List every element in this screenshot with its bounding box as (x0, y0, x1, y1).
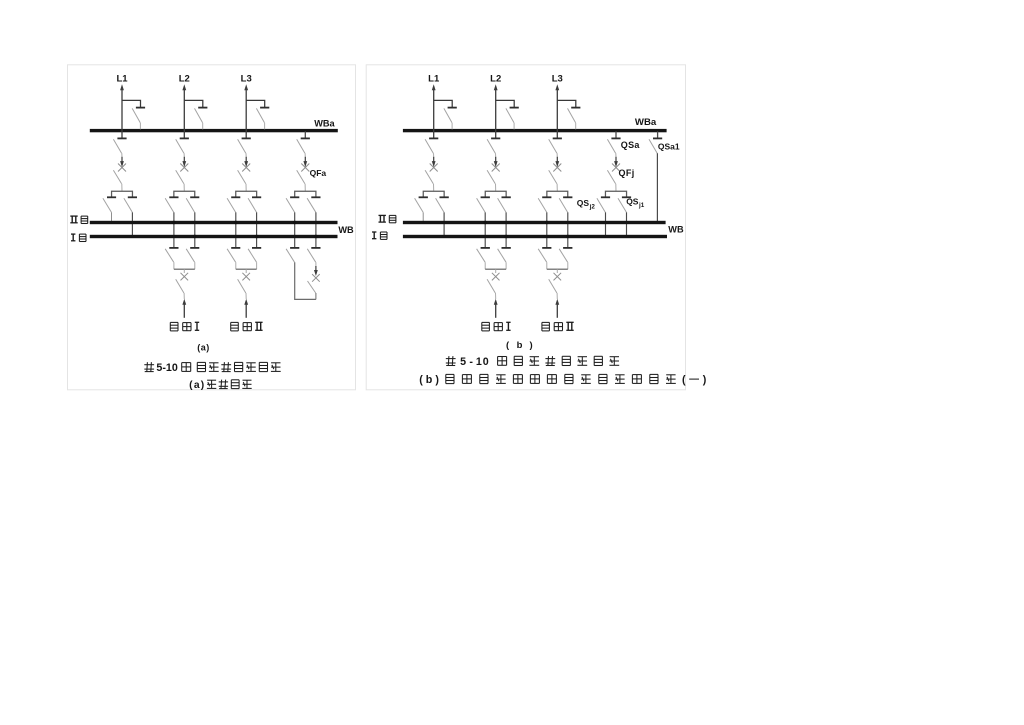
disconnector: L2 left leg to busbar section II (panel a) (165, 197, 178, 248)
wire: QSa1 drop to busbar II (panel b) (656, 153, 658, 221)
label L1 (panel b) (428, 73, 440, 84)
junction: coupler right riser / busbar I (panel a) (314, 235, 317, 238)
svg-text:j2: j2 (589, 203, 596, 210)
svg-text:): ) (201, 380, 204, 391)
disconnector: source II below breaker (panel b) (549, 279, 558, 299)
svg-text:5-10: 5-10 (156, 362, 177, 374)
disconnector: QFa above bus-selector fork (panel a) (297, 170, 306, 191)
disconnector: L1 below bypass busbar (panel b) (425, 138, 438, 157)
svg-text:): ) (435, 374, 439, 386)
label L3 (panel b) (552, 73, 563, 84)
disconnector: source II to busbar I (panel b) (559, 248, 572, 269)
circuit breaker on feeder L2 (panel b) (492, 157, 500, 172)
disconnector QSa1 from bypass busbar to busbar II (panel b) (649, 131, 662, 153)
label 电源 I (panel a) (170, 322, 199, 331)
svg-text:L1: L1 (116, 73, 128, 84)
svg-text:L3: L3 (241, 73, 252, 84)
wire: feeder L1 with outgoing arrow (panel a) (120, 84, 124, 138)
wire: L1 bus-selector fork (panel b) (423, 191, 444, 197)
svg-text:L2: L2 (490, 73, 501, 84)
label QFa (panel a) (310, 168, 327, 178)
wire: source I incoming lead with arrow (panel b) (494, 299, 498, 318)
label WBa (panel b) (635, 117, 657, 128)
disconnector: L3 above bus-selector fork (panel a) (238, 170, 247, 191)
disconnector QSj1: QFj right leg to busbar I (panel b) (618, 197, 631, 235)
bus coupler / bypass circuit breaker QFj (panel b) (612, 157, 620, 172)
label L3 (panel a) (241, 73, 252, 84)
main busbar section I (panel b) (403, 235, 667, 238)
disconnector: coupler leg from busbar I (panel a) (307, 248, 320, 267)
disconnector: L2 branch to bypass busbar (panel a) (195, 108, 208, 130)
disconnector: L1 below bypass busbar (panel a) (113, 138, 126, 157)
junction: riser / busbar II (panel a) at x=174 (172, 221, 175, 224)
label WB (panel a) (338, 225, 354, 235)
svg-text:QS: QS (626, 196, 639, 206)
svg-text:(: ( (189, 380, 193, 391)
svg-text:(: ( (419, 374, 423, 386)
wire: L1 branch to bypass bus (panel b) (434, 100, 453, 107)
disconnector: coupler below breaker (panel a) (308, 281, 316, 299)
disconnector: L2 right leg to busbar section I (panel a) (186, 197, 199, 248)
disconnector: L1 branch to bypass busbar (panel a) (132, 108, 145, 130)
disconnector: L1 right leg to busbar section I (panel a) (124, 197, 137, 235)
disconnector: L1 left leg to busbar section II (panel a) (103, 197, 116, 221)
caption (b) (panel b) (506, 340, 533, 351)
svg-text:QSa1: QSa1 (658, 142, 680, 152)
junction: riser / busbar I (panel a) at x=257 (255, 235, 258, 238)
main busbar section II (panel b) (403, 221, 666, 224)
label QSa1 (panel b) (658, 142, 680, 152)
wire: L3 branch to bypass bus (panel b) (557, 100, 576, 107)
disconnector: L2 above bus-selector fork (panel b) (487, 170, 496, 191)
label QSj1 (panel b) (626, 196, 645, 208)
caption (a) (panel a) (197, 342, 210, 352)
disconnector: source I to busbar I (panel a) (186, 248, 199, 269)
svg-text:5: 5 (460, 356, 466, 368)
wire: L3 branch to bypass bus (panel a) (246, 100, 265, 107)
svg-text:L1: L1 (428, 73, 440, 84)
circuit breaker on feeder L2 (panel a) (180, 157, 188, 172)
wire: L1 bus-selector fork (panel a) (112, 191, 133, 197)
svg-text:QS: QS (577, 198, 590, 208)
disconnector: source I to busbar II (panel a) (165, 248, 178, 269)
disconnector: L3 branch to bypass busbar (panel b) (568, 108, 581, 130)
disconnector: source II to busbar I (panel a) (248, 248, 261, 269)
disconnector: QFa left leg to busbar II (panel a) (286, 197, 299, 248)
svg-text:L2: L2 (179, 73, 190, 84)
disconnector: L3 left leg to busbar section II (panel a) (227, 197, 240, 248)
disconnector: source II to busbar II (panel b) (538, 248, 551, 269)
label II 段 (panel b) (379, 215, 396, 222)
disconnector: L3 right leg to busbar section I (panel b) (559, 197, 572, 248)
svg-text:b: b (517, 340, 523, 351)
junction: riser / busbar II (panel a) at x=236 (234, 221, 237, 224)
wire: L2 bus-selector fork (panel b) (485, 191, 506, 197)
svg-text:1: 1 (476, 356, 482, 368)
svg-text:): ) (530, 340, 533, 351)
disconnector: QFa right leg to busbar I (panel a) (307, 197, 320, 248)
disconnector: L3 branch to bypass busbar (panel a) (256, 108, 269, 130)
caption (b)母联断路器兼作旁路断路器接线(一) (panel b) (419, 374, 707, 386)
svg-text:QFa: QFa (310, 168, 327, 178)
disconnector QSj2: QFj left leg to busbars (panel b) (597, 197, 610, 235)
wire: feeder L1 with outgoing arrow (panel b) (432, 84, 436, 138)
caption (a)标准接线 (panel a) (189, 380, 252, 392)
label I 段 (panel a) (71, 234, 86, 241)
wire: L3 bus-selector fork (panel a) (236, 191, 257, 197)
disconnector: L2 below bypass busbar (panel b) (487, 138, 500, 157)
wire: coupler left drop and bottom link (panel a) (295, 262, 316, 299)
label II 段 (panel a) (70, 216, 87, 223)
label QSj2 (panel b) (577, 198, 596, 210)
svg-text:WB: WB (338, 225, 354, 235)
svg-text:WBa: WBa (635, 117, 657, 128)
svg-text:j1: j1 (638, 202, 645, 209)
wire: feeder L2 with outgoing arrow (panel a) (182, 84, 186, 138)
disconnector: L1 above bus-selector fork (panel b) (425, 170, 434, 191)
circuit breaker on feeder L1 (panel a) (118, 157, 126, 172)
wire: source II incoming lead with arrow (panel a) (244, 299, 248, 318)
circuit breaker on feeder L3 (panel a) (242, 157, 250, 172)
disconnector: L3 above bus-selector fork (panel b) (549, 170, 558, 191)
svg-text:WBa: WBa (314, 119, 335, 129)
wire: source II fork bar (panel b) (547, 269, 568, 273)
caption 图5-10 双母线带旁路接线 (panel a) (144, 362, 280, 374)
junction: riser / busbar I (panel b) at x=506 (504, 235, 507, 238)
label 电源 II (panel b) (542, 322, 574, 331)
circuit breaker on feeder L1 (panel b) (430, 157, 438, 172)
disconnector: L2 below bypass busbar (panel a) (176, 138, 189, 157)
disconnector: L2 above bus-selector fork (panel a) (176, 170, 185, 191)
disconnector: QFa column below bypass busbar (panel a) (297, 131, 310, 157)
disconnector: L2 left leg to busbar section II (panel b) (477, 197, 490, 248)
bus coupler circuit breaker (panel a) (312, 266, 320, 282)
label I 段 (panel b) (372, 232, 387, 239)
wire: feeder L2 with outgoing arrow (panel b) (494, 84, 498, 138)
wire: source I fork bar (panel b) (485, 269, 506, 273)
wire: L3 bus-selector fork (panel b) (547, 191, 568, 197)
wire: L1 branch to bypass bus (panel a) (122, 100, 141, 107)
disconnector: QFj above bus-selector fork (panel b) (607, 170, 616, 191)
label QFj (panel b) (619, 168, 635, 178)
circuit breaker on source I (panel a) (181, 273, 189, 281)
svg-text:): ) (703, 374, 707, 386)
wire: source I incoming lead with arrow (panel a) (182, 299, 186, 318)
junction: riser / busbar II (panel b) at x=547 (545, 221, 548, 224)
disconnector: source I below breaker (panel b) (487, 279, 496, 299)
disconnector: L3 right leg to busbar section I (panel a) (248, 197, 261, 248)
disconnector: L3 left leg to busbar section II (panel b) (538, 197, 551, 248)
label WBa (panel a) (314, 119, 335, 129)
svg-text:(a): (a) (197, 342, 210, 352)
caption 图5-10 双母线带旁路接线 (panel b) (446, 356, 619, 368)
disconnector: L1 branch to bypass busbar (panel b) (444, 108, 457, 130)
svg-text:QFj: QFj (619, 168, 635, 178)
disconnector: source II below breaker (panel a) (238, 279, 247, 299)
junction: riser / busbar I (panel b) at x=568 (566, 235, 569, 238)
junction: riser / busbar I (panel a) at x=195 (193, 235, 196, 238)
disconnector: source II to busbar II (panel a) (227, 248, 240, 269)
disconnector: L2 branch to bypass busbar (panel b) (506, 108, 519, 130)
svg-text:0: 0 (483, 356, 489, 368)
svg-text:a: a (194, 380, 200, 391)
svg-text:-: - (469, 356, 473, 368)
wire: source I fork bar (panel a) (174, 269, 195, 273)
svg-text:L3: L3 (552, 73, 563, 84)
disconnector: L1 above bus-selector fork (panel a) (113, 170, 122, 191)
wire: QFa bus-selector fork (panel a) (295, 191, 316, 197)
disconnector: L2 right leg to busbar section I (panel b) (498, 197, 511, 248)
label 电源 I (panel b) (482, 322, 511, 331)
circuit breaker on feeder L3 (panel b) (553, 157, 561, 172)
circuit breaker on source I (panel b) (492, 273, 500, 281)
disconnector: L1 left leg to busbar section II (panel b) (415, 197, 428, 221)
label QSa (panel b) (621, 140, 641, 150)
disconnector: source I to busbar II (panel b) (477, 248, 490, 269)
svg-text:(: ( (682, 374, 686, 386)
wire: source II fork bar (panel a) (236, 269, 257, 273)
disconnector: coupler leg from busbar II (panel a) (286, 248, 299, 262)
wire: feeder L3 with outgoing arrow (panel b) (555, 84, 559, 138)
svg-text:b: b (426, 374, 433, 386)
label WB (panel b) (668, 225, 684, 235)
wire: L2 branch to bypass bus (panel a) (184, 100, 203, 107)
circuit breaker on source II (panel a) (242, 273, 250, 281)
junction: coupler left riser / busbar II (panel a) (293, 221, 296, 224)
label L2 (panel b) (490, 73, 501, 84)
main busbar section I (panel a) (90, 235, 338, 238)
disconnector: source I below breaker (panel a) (176, 279, 185, 299)
bypass busbar WBa (panel b) (403, 129, 667, 132)
main busbar section II (panel a) (90, 221, 338, 224)
wire: source II incoming lead with arrow (panel b) (555, 299, 559, 318)
panel (a) frame (68, 65, 356, 390)
disconnector: L1 right leg to busbar section I (panel b) (436, 197, 449, 235)
label 电源 II (panel a) (231, 322, 263, 331)
junction: riser / busbar II (panel b) at x=485 (484, 221, 487, 224)
circuit breaker on source II (panel b) (554, 273, 562, 281)
svg-text:QSa: QSa (621, 140, 641, 150)
panel (b) frame (366, 65, 685, 390)
disconnector: source I to busbar I (panel b) (498, 248, 511, 269)
bypass busbar WBa (panel a) (90, 129, 338, 132)
bypass circuit breaker QFa (panel a) (301, 157, 309, 172)
disconnector QSa below bypass busbar (panel b) (607, 131, 620, 157)
label L1 (panel a) (116, 73, 128, 84)
wire: QFj bus-selector fork (panel b) (605, 191, 626, 197)
wire: L2 branch to bypass bus (panel b) (496, 100, 515, 107)
disconnector: L3 below bypass busbar (panel b) (549, 138, 562, 157)
label L2 (panel a) (179, 73, 190, 84)
disconnector: L3 below bypass busbar (panel a) (238, 138, 251, 157)
svg-text:WB: WB (668, 225, 684, 235)
wire: feeder L3 with outgoing arrow (panel a) (244, 84, 248, 138)
wire: L2 bus-selector fork (panel a) (174, 191, 195, 197)
